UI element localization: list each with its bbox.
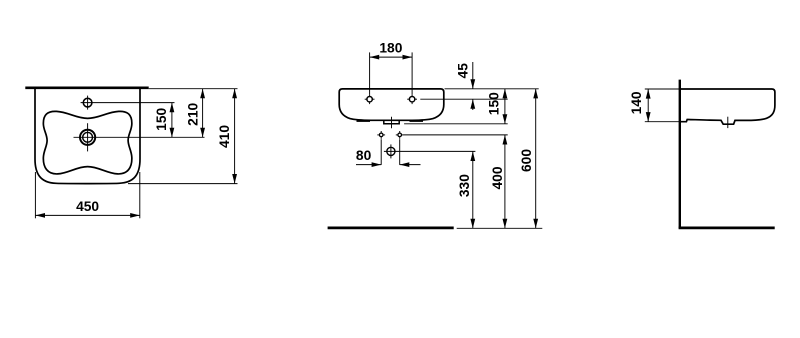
right foot tab: [410, 120, 424, 122]
svg-text:150: 150: [154, 107, 169, 130]
trap outlet circle: [387, 144, 395, 158]
drain vertical centerline: [87, 123, 89, 151]
basin front outline: [339, 89, 444, 120]
drain stub front: [384, 120, 399, 124]
svg-text:410: 410: [217, 125, 232, 148]
mounting hole extension line to 150 dim: [420, 98, 507, 100]
basin outer outline: [35, 89, 140, 184]
dimension 150 line: [171, 103, 173, 138]
basin side profile: [681, 89, 775, 124]
bottom extension line to 410 dim: [128, 183, 238, 185]
svg-text:140: 140: [629, 91, 644, 114]
450 right extension line: [139, 172, 141, 218]
80 right extension line: [399, 139, 401, 165]
dimension 180 line: [370, 56, 413, 58]
drain horizontal centerline / extension to 210 dim: [74, 136, 205, 138]
drain stub extension line to 150 dim: [404, 123, 508, 125]
drain inner circle: [83, 132, 93, 142]
dimension 45 lower arrow: [472, 99, 474, 110]
svg-text:80: 80: [356, 148, 372, 163]
fixing bolt extension line to 400 dim: [404, 134, 508, 136]
450 left extension line: [34, 172, 36, 218]
180 right extension line: [411, 52, 413, 94]
faucet hole horizontal centerline / extension to 150 dim: [81, 102, 175, 104]
140 top extension line: [645, 88, 679, 90]
80 left extension line: [380, 139, 382, 165]
svg-text:400: 400: [490, 166, 505, 189]
dimension 80 right arrow: [400, 164, 421, 166]
140 bottom extension line: [645, 121, 679, 123]
dimension 410 line: [234, 89, 236, 184]
top edge extension line to 600 dim: [445, 88, 539, 90]
drain stub centerline (side): [727, 117, 729, 128]
right mounting hole: [407, 94, 417, 104]
dimension 330 line: [472, 151, 474, 228]
wall line (thick): [679, 80, 681, 229]
floor line (thick): [328, 227, 454, 230]
trap horizontal centerline / extension to 330 dim: [384, 150, 476, 152]
svg-text:450: 450: [76, 199, 99, 214]
svg-text:210: 210: [186, 102, 201, 125]
dimension 210 line: [202, 89, 204, 138]
svg-text:45: 45: [456, 63, 471, 79]
left foot tab: [357, 120, 371, 122]
dimension 600 line: [535, 89, 537, 229]
floor extension line: [457, 227, 543, 229]
svg-text:150: 150: [486, 92, 501, 115]
drain stub centerline: [391, 117, 393, 129]
left mounting hole: [365, 94, 375, 104]
inner basin wavy rim: [43, 111, 132, 174]
dimension 150 line (front): [504, 89, 506, 124]
svg-text:330: 330: [457, 174, 472, 197]
faucet hole: [83, 98, 92, 107]
top extension line to 410 dim: [149, 88, 238, 90]
faucet hole vertical centerline: [87, 96, 89, 110]
fixing bolt right: [396, 131, 404, 139]
floor line (thick): [679, 227, 775, 230]
svg-text:180: 180: [379, 41, 402, 56]
svg-text:600: 600: [519, 149, 534, 172]
dimension 140 line: [647, 89, 649, 122]
dimension 450 line: [35, 214, 139, 216]
180 left extension line: [369, 52, 371, 94]
drain outer circle: [80, 130, 95, 145]
fixing bolt left: [377, 131, 385, 139]
back edge (thick wall line): [25, 86, 148, 89]
dimension 400 line: [504, 135, 506, 228]
dimension 80 left arrow: [356, 164, 381, 166]
dimension 45 upper arrow: [472, 62, 474, 89]
